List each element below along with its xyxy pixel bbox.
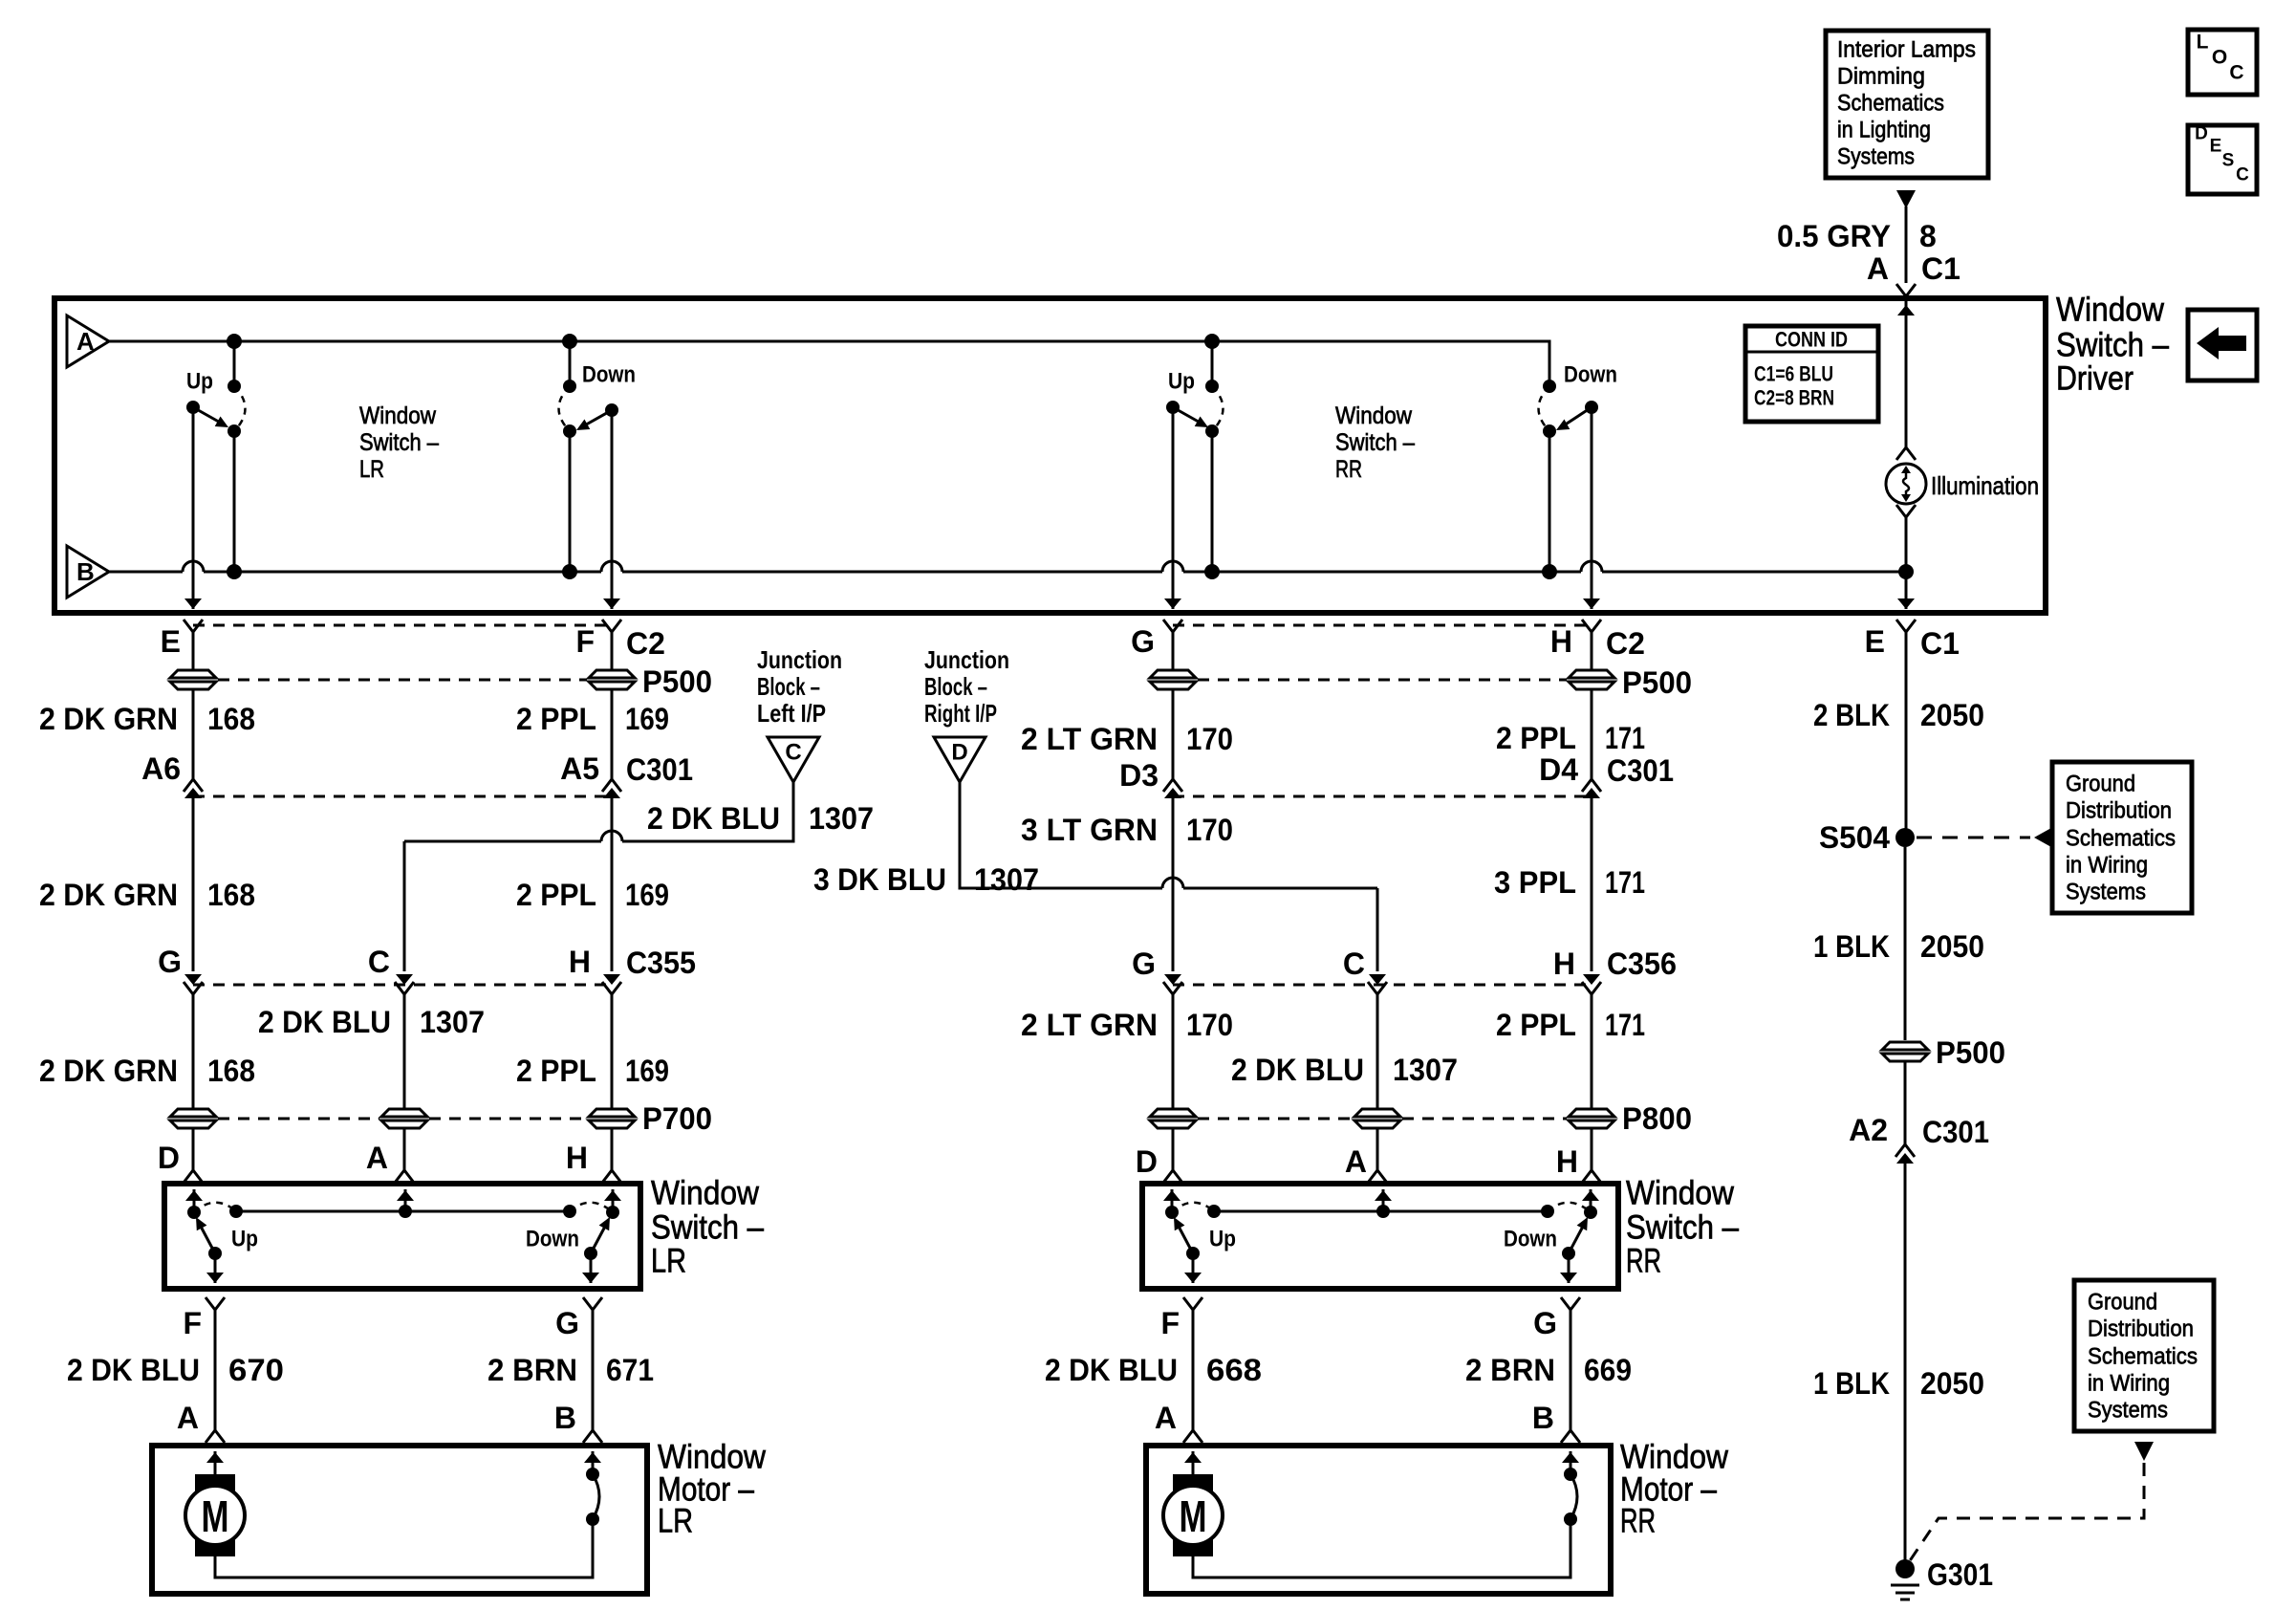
- svg-text:D: D: [1136, 1144, 1158, 1179]
- label connector C301 (right): [1607, 753, 1674, 788]
- wire C356 pin C to P800: [1376, 994, 1379, 1108]
- label P800: [1622, 1101, 1692, 1136]
- svg-text:H: H: [569, 945, 591, 979]
- label 0.5 GRY: [1777, 219, 1891, 253]
- label connector C1: [1921, 251, 1960, 286]
- connector C355 dashed line: [193, 984, 612, 987]
- label 3 PPL: [1494, 865, 1576, 900]
- label 8: [1919, 219, 1937, 253]
- wire LR motor pin B to breaker: [584, 1451, 601, 1474]
- label Up (driver RR): [1168, 369, 1195, 395]
- wire P700 to LR switch pin D: [184, 1129, 203, 1183]
- svg-text:Switch –: Switch –: [1335, 429, 1415, 456]
- label pin H (C355): [569, 945, 591, 979]
- svg-text:8: 8: [1919, 219, 1937, 253]
- svg-text:C301: C301: [1922, 1115, 1989, 1149]
- wire P500 to C301 pin A5: [611, 690, 614, 779]
- grommet P500 at wire 171: [1569, 670, 1614, 689]
- grommet P800 pin H: [1569, 1109, 1614, 1128]
- svg-text:3 PPL: 3 PPL: [1494, 865, 1576, 900]
- label 2 LT GRN (top): [1021, 722, 1158, 756]
- label pin A2: [1849, 1113, 1888, 1147]
- svg-text:3 LT GRN: 3 LT GRN: [1021, 813, 1158, 847]
- label 2 DK GRN (top): [39, 702, 178, 736]
- label pin C (C355): [368, 945, 390, 979]
- component box: Window Switch - LR: [164, 1184, 640, 1289]
- junction dot bus A / RR Up: [1204, 334, 1220, 349]
- wire RR Down pivot to pin H: [1583, 407, 1600, 609]
- svg-text:RR: RR: [1335, 456, 1362, 483]
- label pin G: [1131, 624, 1155, 659]
- label pin B (LR motor): [554, 1401, 576, 1435]
- connector C301 dashed line (right): [1173, 795, 1592, 798]
- wire pin H to P500: [1591, 632, 1593, 669]
- label pin D3: [1119, 758, 1159, 793]
- junction block C triangle: [768, 737, 819, 782]
- bus B hop over H wire: [1581, 561, 1602, 572]
- wire 2 DK BLU 670: [206, 1310, 225, 1443]
- svg-text:Switch –: Switch –: [651, 1209, 764, 1247]
- grommet P500 at wire 2050: [1882, 1042, 1928, 1061]
- label pin A: [1867, 251, 1889, 286]
- component box: Window Switch - Driver: [54, 298, 2046, 613]
- label connector C355: [626, 946, 696, 980]
- svg-text:168: 168: [207, 1054, 255, 1088]
- label 169 (lower): [625, 1054, 669, 1088]
- grommet P500 at wire 169: [589, 670, 635, 689]
- svg-text:2 BLK: 2 BLK: [1813, 698, 1890, 732]
- svg-text:C: C: [785, 740, 801, 766]
- label 2050 (middle): [1920, 929, 1984, 964]
- svg-text:E: E: [161, 624, 181, 659]
- connector chevron C1 pin A: [1896, 284, 1916, 296]
- label Window Motor - RR: [1620, 1439, 1729, 1540]
- connector chevron below C356 C: [1368, 982, 1387, 994]
- svg-text:2050: 2050: [1920, 929, 1984, 964]
- RR Up switch contacts and lever: [1166, 380, 1224, 438]
- svg-text:2 PPL: 2 PPL: [1496, 721, 1576, 755]
- label P700: [642, 1101, 712, 1136]
- svg-text:S: S: [2222, 151, 2235, 171]
- connector chevron below illumination lamp: [1896, 505, 1916, 517]
- P500 dashed link (left pair): [218, 679, 587, 682]
- wire LR Down pivot to pin F: [603, 410, 620, 609]
- svg-text:2 PPL: 2 PPL: [516, 878, 596, 912]
- svg-text:P800: P800: [1622, 1101, 1692, 1136]
- svg-text:170: 170: [1186, 813, 1233, 847]
- wire pin G to P500: [1172, 632, 1175, 669]
- wire C356 pin H to P800: [1591, 994, 1593, 1108]
- RR switch Up contact dots and lever: [1165, 1203, 1214, 1260]
- svg-text:2 DK BLU: 2 DK BLU: [1231, 1053, 1364, 1087]
- motor M (RR): [1163, 1474, 1223, 1556]
- connector chevron pin F: [602, 620, 621, 632]
- svg-text:169: 169: [625, 1054, 669, 1088]
- svg-text:A2: A2: [1849, 1113, 1888, 1147]
- label Window Switch - Driver: [2056, 292, 2169, 398]
- P800 dashed links: [1198, 1118, 1567, 1120]
- hop of 3 DK BLU wire over wire 170: [1162, 878, 1183, 888]
- junction dot bus A / LR Up: [227, 334, 242, 349]
- wire LR Up contact to bus B: [233, 431, 236, 572]
- wire P500 to C301 pin D3: [1172, 690, 1175, 779]
- label connector C356: [1607, 946, 1677, 981]
- label 2 PPL (lower right): [1496, 1008, 1576, 1042]
- label S504: [1819, 820, 1890, 855]
- label 2050 (upper): [1920, 698, 1984, 732]
- junction dot pin A RR switch: [1376, 1205, 1390, 1218]
- svg-text:G: G: [1131, 624, 1155, 659]
- svg-text:2 BRN: 2 BRN: [487, 1353, 577, 1387]
- svg-text:Window: Window: [651, 1175, 760, 1212]
- connector chevron below C356 G: [1163, 982, 1182, 994]
- RR Down switch contacts and lever: [1539, 380, 1599, 438]
- connector chevron RR switch pin F: [1183, 1297, 1202, 1310]
- svg-text:169: 169: [625, 878, 669, 912]
- svg-text:A6: A6: [141, 751, 181, 786]
- label 169 (middle): [625, 878, 669, 912]
- wire 2 BRN 671: [583, 1310, 602, 1443]
- connector halves at C301 pin A6: [184, 779, 203, 798]
- connector C356 dashed line: [1173, 984, 1592, 987]
- label pin F (RR switch): [1160, 1306, 1180, 1340]
- label 168 (middle): [207, 878, 255, 912]
- wire C301 pin A6 to C355 pin G: [184, 796, 202, 985]
- svg-text:A: A: [366, 1141, 388, 1175]
- svg-text:A: A: [1867, 251, 1889, 286]
- label pin F: [575, 624, 595, 659]
- svg-text:RR: RR: [1626, 1243, 1661, 1280]
- svg-text:2 PPL: 2 PPL: [516, 1054, 596, 1088]
- label Window Switch - RR: [1626, 1175, 1739, 1280]
- svg-text:A5: A5: [560, 751, 599, 786]
- connector chevron below C355 H: [602, 982, 621, 994]
- label 3 DK BLU (junction D): [813, 862, 946, 897]
- svg-text:1307: 1307: [1393, 1053, 1458, 1087]
- label Window Switch - RR (driver box): [1335, 402, 1415, 483]
- svg-text:C2: C2: [626, 626, 665, 661]
- label pin D4: [1539, 752, 1578, 787]
- wire C355 pin C to P700: [403, 994, 406, 1108]
- svg-text:CONN ID: CONN ID: [1775, 328, 1848, 352]
- svg-text:A: A: [177, 1401, 199, 1435]
- label 2 BLK: [1813, 698, 1890, 732]
- reference box: Ground Distribution Schematics in Wiring Systems (upper): [2052, 762, 2192, 913]
- junction dot RR Up / bus B: [1204, 564, 1220, 579]
- wire 2 DK BLU 1307 from junction block C: [396, 782, 793, 985]
- svg-text:A: A: [1345, 1144, 1367, 1179]
- svg-text:Up: Up: [1168, 369, 1195, 395]
- svg-text:2 DK GRN: 2 DK GRN: [39, 878, 178, 912]
- dashed reference link S504 to ground box: [1917, 828, 2051, 847]
- LR switch common bus: [229, 1205, 576, 1218]
- wire 3 DK BLU 1307 from junction block D: [960, 782, 1386, 985]
- label 171 (top): [1605, 721, 1645, 755]
- svg-text:2 DK BLU: 2 DK BLU: [647, 801, 780, 836]
- svg-text:LR: LR: [651, 1243, 686, 1280]
- svg-text:1307: 1307: [809, 801, 874, 836]
- wire LR Up pivot to pin E: [184, 407, 202, 609]
- svg-text:Window: Window: [1626, 1175, 1735, 1212]
- svg-text:H: H: [1553, 946, 1575, 981]
- label Down (LR switch): [526, 1227, 579, 1252]
- connector halves at C301 pin D3: [1163, 779, 1182, 798]
- wire 2 DK BLU 668: [1183, 1310, 1202, 1443]
- junction dot RR Down / bus B: [1542, 564, 1557, 579]
- label Up (LR switch): [231, 1227, 258, 1252]
- connector chevron LR switch pin F: [206, 1297, 225, 1310]
- svg-text:Down: Down: [582, 362, 636, 388]
- label Up (RR switch): [1209, 1227, 1236, 1252]
- svg-text:D: D: [158, 1141, 180, 1175]
- LR Down switch contacts and lever: [559, 380, 619, 438]
- wire RR Up pivot to pin G: [1164, 407, 1181, 609]
- bus B wire: [109, 571, 1905, 574]
- off-page arrow below lower ground box: [2134, 1442, 2154, 1461]
- wire C355 pin G to P700: [192, 994, 195, 1108]
- bus A wire: [109, 341, 1549, 386]
- connector chevron LR switch pin G: [583, 1297, 602, 1310]
- svg-text:P500: P500: [642, 664, 712, 699]
- svg-text:Schematics: Schematics: [1837, 91, 1944, 117]
- svg-text:Block –: Block –: [924, 672, 987, 701]
- svg-text:671: 671: [606, 1353, 654, 1387]
- wire C355 pin H to P700: [611, 994, 614, 1108]
- svg-text:171: 171: [1605, 865, 1645, 900]
- splice S504: [1895, 828, 1915, 847]
- label 171 (lower): [1605, 1008, 1645, 1042]
- svg-text:in Lighting: in Lighting: [1837, 118, 1931, 143]
- svg-text:G: G: [555, 1306, 579, 1340]
- svg-text:Distribution: Distribution: [2088, 1316, 2194, 1342]
- svg-text:Junction: Junction: [757, 645, 842, 674]
- label 170 (3 LT GRN): [1186, 813, 1233, 847]
- bus B hop over G wire: [1162, 561, 1183, 572]
- svg-text:2 LT GRN: 2 LT GRN: [1021, 722, 1158, 756]
- P500 dashed link (right pair): [1198, 679, 1567, 682]
- svg-text:3 DK BLU: 3 DK BLU: [813, 862, 946, 897]
- label connector C301 (left): [626, 752, 693, 787]
- grommet P700 pin D: [170, 1109, 216, 1128]
- svg-text:C1: C1: [1921, 251, 1960, 286]
- svg-text:P700: P700: [642, 1101, 712, 1136]
- svg-text:B: B: [76, 557, 95, 586]
- svg-text:169: 169: [625, 702, 669, 736]
- wire RR motor pin A to motor: [1184, 1451, 1202, 1474]
- wire C301 pin D3 to C356 pin G: [1164, 796, 1181, 985]
- svg-text:Up: Up: [231, 1227, 258, 1252]
- wire RR motor pin B to breaker: [1562, 1451, 1579, 1474]
- svg-text:Systems: Systems: [1837, 144, 1915, 170]
- svg-text:C2=8 BRN: C2=8 BRN: [1754, 386, 1834, 410]
- label pin G (LR switch): [555, 1306, 579, 1340]
- wire pin F to P500: [611, 632, 614, 669]
- wire LR motor pin A to motor: [206, 1451, 224, 1474]
- svg-text:Ground: Ground: [2088, 1290, 2157, 1316]
- junction dot bus A / LR Down: [562, 334, 577, 349]
- svg-text:171: 171: [1605, 721, 1645, 755]
- label pin E (C1): [1865, 624, 1885, 659]
- LR Up switch contacts and lever: [186, 380, 246, 438]
- label pin F (LR switch): [183, 1306, 202, 1340]
- bus B hop over F wire: [601, 561, 622, 572]
- illumination lamp: [1886, 464, 1926, 504]
- connector chevron RR switch pin G: [1561, 1297, 1580, 1310]
- svg-text:670: 670: [228, 1353, 284, 1387]
- label connector C2 (left): [626, 626, 665, 661]
- svg-text:Junction: Junction: [924, 645, 1009, 674]
- svg-text:Systems: Systems: [2088, 1398, 2168, 1424]
- svg-text:Block –: Block –: [757, 672, 820, 701]
- reference box: Ground Distribution Schematics in Wiring Systems (lower): [2074, 1280, 2214, 1431]
- svg-text:2050: 2050: [1920, 698, 1984, 732]
- wire 2 BRN 669: [1561, 1310, 1580, 1443]
- label pin G (RR switch): [1533, 1306, 1557, 1340]
- label 2 DK BLU (668): [1045, 1353, 1178, 1387]
- junction dot LR Up / bus B: [227, 564, 242, 579]
- svg-text:Illumination: Illumination: [1931, 471, 2039, 500]
- label pin C (C356): [1343, 946, 1365, 981]
- grommet P500 at wire 168: [170, 670, 216, 689]
- svg-text:Systems: Systems: [2066, 880, 2146, 905]
- svg-text:C301: C301: [1607, 753, 1674, 788]
- svg-text:168: 168: [207, 878, 255, 912]
- svg-text:668: 668: [1206, 1353, 1262, 1387]
- label 170 (lower): [1186, 1008, 1233, 1042]
- svg-text:Switch –: Switch –: [359, 429, 439, 456]
- svg-text:170: 170: [1186, 1008, 1233, 1042]
- svg-text:C356: C356: [1607, 946, 1677, 981]
- node A feed triangle: [67, 315, 109, 367]
- svg-text:C: C: [2236, 165, 2249, 185]
- connector chevron pin G: [1163, 620, 1182, 632]
- label pin H (LR switch): [566, 1141, 588, 1175]
- label pin E: [161, 624, 181, 659]
- svg-text:C1: C1: [1920, 626, 1960, 661]
- svg-text:M: M: [1180, 1491, 1207, 1541]
- svg-text:D: D: [2195, 124, 2208, 144]
- connector chevron below C355 G: [184, 982, 203, 994]
- svg-text:2 DK BLU: 2 DK BLU: [258, 1005, 391, 1039]
- svg-text:C: C: [368, 945, 390, 979]
- svg-text:M: M: [202, 1491, 229, 1541]
- LR switch Up contact dots and lever: [187, 1203, 236, 1260]
- connector chevron pin H: [1582, 620, 1601, 632]
- label Window Switch - LR: [651, 1175, 764, 1280]
- svg-text:E: E: [2210, 137, 2222, 157]
- label 169 (top): [625, 702, 669, 736]
- svg-text:Interior Lamps: Interior Lamps: [1837, 37, 1976, 63]
- label 668: [1206, 1353, 1262, 1387]
- label pin A6: [141, 751, 181, 786]
- wire P700 to LR switch pin A: [395, 1129, 414, 1183]
- label 2 PPL (top right): [1496, 721, 1576, 755]
- label P500 (ground wire): [1936, 1035, 2005, 1070]
- label connector C301 (ground): [1922, 1115, 1989, 1149]
- label 168 (lower): [207, 1054, 255, 1088]
- label Window Motor - LR: [658, 1439, 767, 1540]
- svg-text:168: 168: [207, 702, 255, 736]
- svg-text:Schematics: Schematics: [2066, 826, 2176, 852]
- svg-text:Window: Window: [1335, 402, 1413, 429]
- svg-text:D: D: [951, 740, 967, 766]
- label 2 PPL (middle left): [516, 878, 596, 912]
- wire RR switch pin A to common bus: [1375, 1189, 1392, 1211]
- svg-text:2 BRN: 2 BRN: [1465, 1353, 1555, 1387]
- label connector C2 (right): [1606, 626, 1645, 661]
- label 2 DK BLU (LR): [258, 1005, 391, 1039]
- label 168 (top): [207, 702, 255, 736]
- bus B hop over E wire: [183, 561, 204, 572]
- hop of 2 DK BLU wire over wire 169: [601, 831, 622, 841]
- back-arrow box: [2188, 310, 2257, 381]
- svg-text:2 LT GRN: 2 LT GRN: [1021, 1008, 1158, 1042]
- svg-text:F: F: [1160, 1306, 1180, 1340]
- label 1 BLK (upper): [1813, 929, 1890, 964]
- svg-text:G: G: [1132, 946, 1156, 981]
- RR switch common bus: [1207, 1205, 1554, 1218]
- svg-text:Schematics: Schematics: [2088, 1344, 2198, 1370]
- grommet P500 at wire 170: [1150, 670, 1196, 689]
- ground G301: [1891, 1559, 1919, 1599]
- svg-text:2050: 2050: [1920, 1366, 1984, 1401]
- wire pin E C1 to splice S504: [1905, 632, 1908, 829]
- label pin A (LR switch): [366, 1141, 388, 1175]
- label G301: [1927, 1557, 1993, 1592]
- svg-text:Left I/P: Left I/P: [757, 699, 826, 728]
- label 1307 (junction C): [809, 801, 874, 836]
- grommet P800 pin D: [1150, 1109, 1196, 1128]
- svg-text:Right I/P: Right I/P: [924, 699, 997, 728]
- connector C2 dashed line (pins G-H): [1173, 624, 1592, 627]
- grommet P800 pin A: [1354, 1109, 1400, 1128]
- LR motor circuit breaker arc: [586, 1468, 599, 1526]
- svg-text:LR: LR: [359, 456, 384, 483]
- wire RR switch Down pivot to pin G: [1560, 1253, 1577, 1283]
- svg-text:1 BLK: 1 BLK: [1813, 929, 1890, 964]
- label 1307 (RR): [1393, 1053, 1458, 1087]
- label 2 DK BLU (RR): [1231, 1053, 1364, 1087]
- svg-text:Window: Window: [2056, 292, 2165, 329]
- svg-text:RR: RR: [1620, 1503, 1656, 1540]
- label 1 BLK (lower): [1813, 1366, 1890, 1401]
- wire LR switch Down contact to pin H: [604, 1189, 621, 1212]
- label P500 (left): [642, 664, 712, 699]
- junction dot pin A LR switch: [399, 1205, 412, 1218]
- wire P700 to LR switch pin H: [602, 1129, 621, 1183]
- motor M (LR): [185, 1474, 245, 1556]
- grommet P700 pin H: [589, 1109, 635, 1128]
- label 670: [228, 1353, 284, 1387]
- wire C301 pin A5 to C355 pin H: [603, 796, 620, 985]
- svg-text:E: E: [1865, 624, 1885, 659]
- label 170 (top): [1186, 722, 1233, 756]
- label Junction Block - Right I/P: [924, 645, 1009, 728]
- svg-text:A: A: [1155, 1401, 1177, 1435]
- svg-text:F: F: [575, 624, 595, 659]
- wire RR switch Down contact to pin H: [1582, 1189, 1599, 1212]
- wire P800 to RR switch pin D: [1163, 1129, 1182, 1183]
- svg-text:2 DK BLU: 2 DK BLU: [67, 1353, 200, 1387]
- connector chevron above illumination lamp: [1896, 447, 1916, 460]
- label pin H (C356): [1553, 946, 1575, 981]
- svg-text:C2: C2: [1606, 626, 1645, 661]
- wire bus B junction to pin E C1: [1897, 572, 1915, 609]
- wire illumination lamp to bus B: [1905, 517, 1908, 572]
- label 2 PPL (top left): [516, 702, 596, 736]
- wire LR motor return: [215, 1519, 593, 1577]
- grommet P700 pin A: [381, 1109, 427, 1128]
